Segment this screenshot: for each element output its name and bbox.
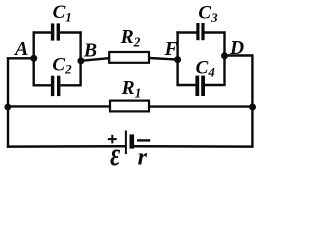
capacitor C1	[51, 23, 60, 40]
wire: R2 to F	[149, 58, 178, 60]
wire: C3C4 loop left vertical through F	[176, 31, 178, 85]
battery plus polarity label	[108, 135, 117, 144]
wire: B to R2	[81, 58, 109, 61]
wire: top branch right segment from C1 to B corner	[60, 33, 81, 35]
svg-text:ε: ε	[110, 136, 120, 171]
wire: bottom branch right segment from C4	[205, 84, 226, 86]
svg-text:A: A	[13, 38, 28, 60]
wire: D to right rail	[225, 54, 254, 56]
svg-text:F: F	[164, 38, 179, 60]
wire: C1C2 loop right vertical through B	[79, 31, 81, 85]
capacitor C3	[196, 23, 204, 40]
wire: middle wire right segment from R1	[149, 105, 254, 107]
capacitor C4	[195, 76, 205, 96]
node B	[77, 57, 84, 64]
wire: bottom branch left segment to C2	[33, 84, 52, 86]
wire: bottom branch right segment from C2	[60, 84, 81, 86]
svg-text:C4: C4	[196, 57, 216, 79]
wire: top branch left segment to C3	[176, 31, 196, 33]
wire: right rail vertical	[251, 54, 253, 147]
svg-text:R1: R1	[121, 78, 142, 101]
svg-text:C1: C1	[53, 2, 72, 24]
wire: top branch left segment to C1	[33, 31, 52, 33]
node A	[30, 55, 37, 62]
battery minus polarity label	[137, 139, 150, 141]
battery cell: short thick negative plate	[130, 134, 135, 148]
battery EMF label epsilon	[110, 136, 120, 172]
svg-text:C3: C3	[198, 3, 218, 25]
node: junction dot right rail / R1 wire	[249, 104, 256, 111]
wire: C3C4 loop right vertical through D	[223, 31, 225, 85]
battery cell: long positive plate	[125, 131, 127, 155]
node F	[174, 56, 181, 63]
wire: C1C2 loop left vertical	[33, 31, 35, 85]
wire: left rail vertical	[7, 57, 9, 147]
wire: bottom rail right segment from battery	[134, 145, 254, 148]
resistor R1	[110, 101, 149, 112]
svg-text:R2: R2	[120, 27, 141, 50]
node D	[221, 52, 228, 59]
capacitor C2	[51, 76, 61, 96]
wire: bottom branch left segment to C4	[176, 84, 195, 86]
svg-text:C2: C2	[52, 54, 72, 76]
wire: node A horizontal lead	[7, 57, 34, 59]
svg-text:r: r	[138, 145, 148, 171]
node: junction dot left rail / R1 wire	[4, 104, 11, 111]
wire: middle wire left segment to R1	[7, 105, 110, 107]
wire: bottom rail left segment to battery	[7, 145, 126, 148]
resistor R2	[109, 52, 149, 63]
wire: top branch right segment from C3 to D corner	[204, 31, 225, 33]
